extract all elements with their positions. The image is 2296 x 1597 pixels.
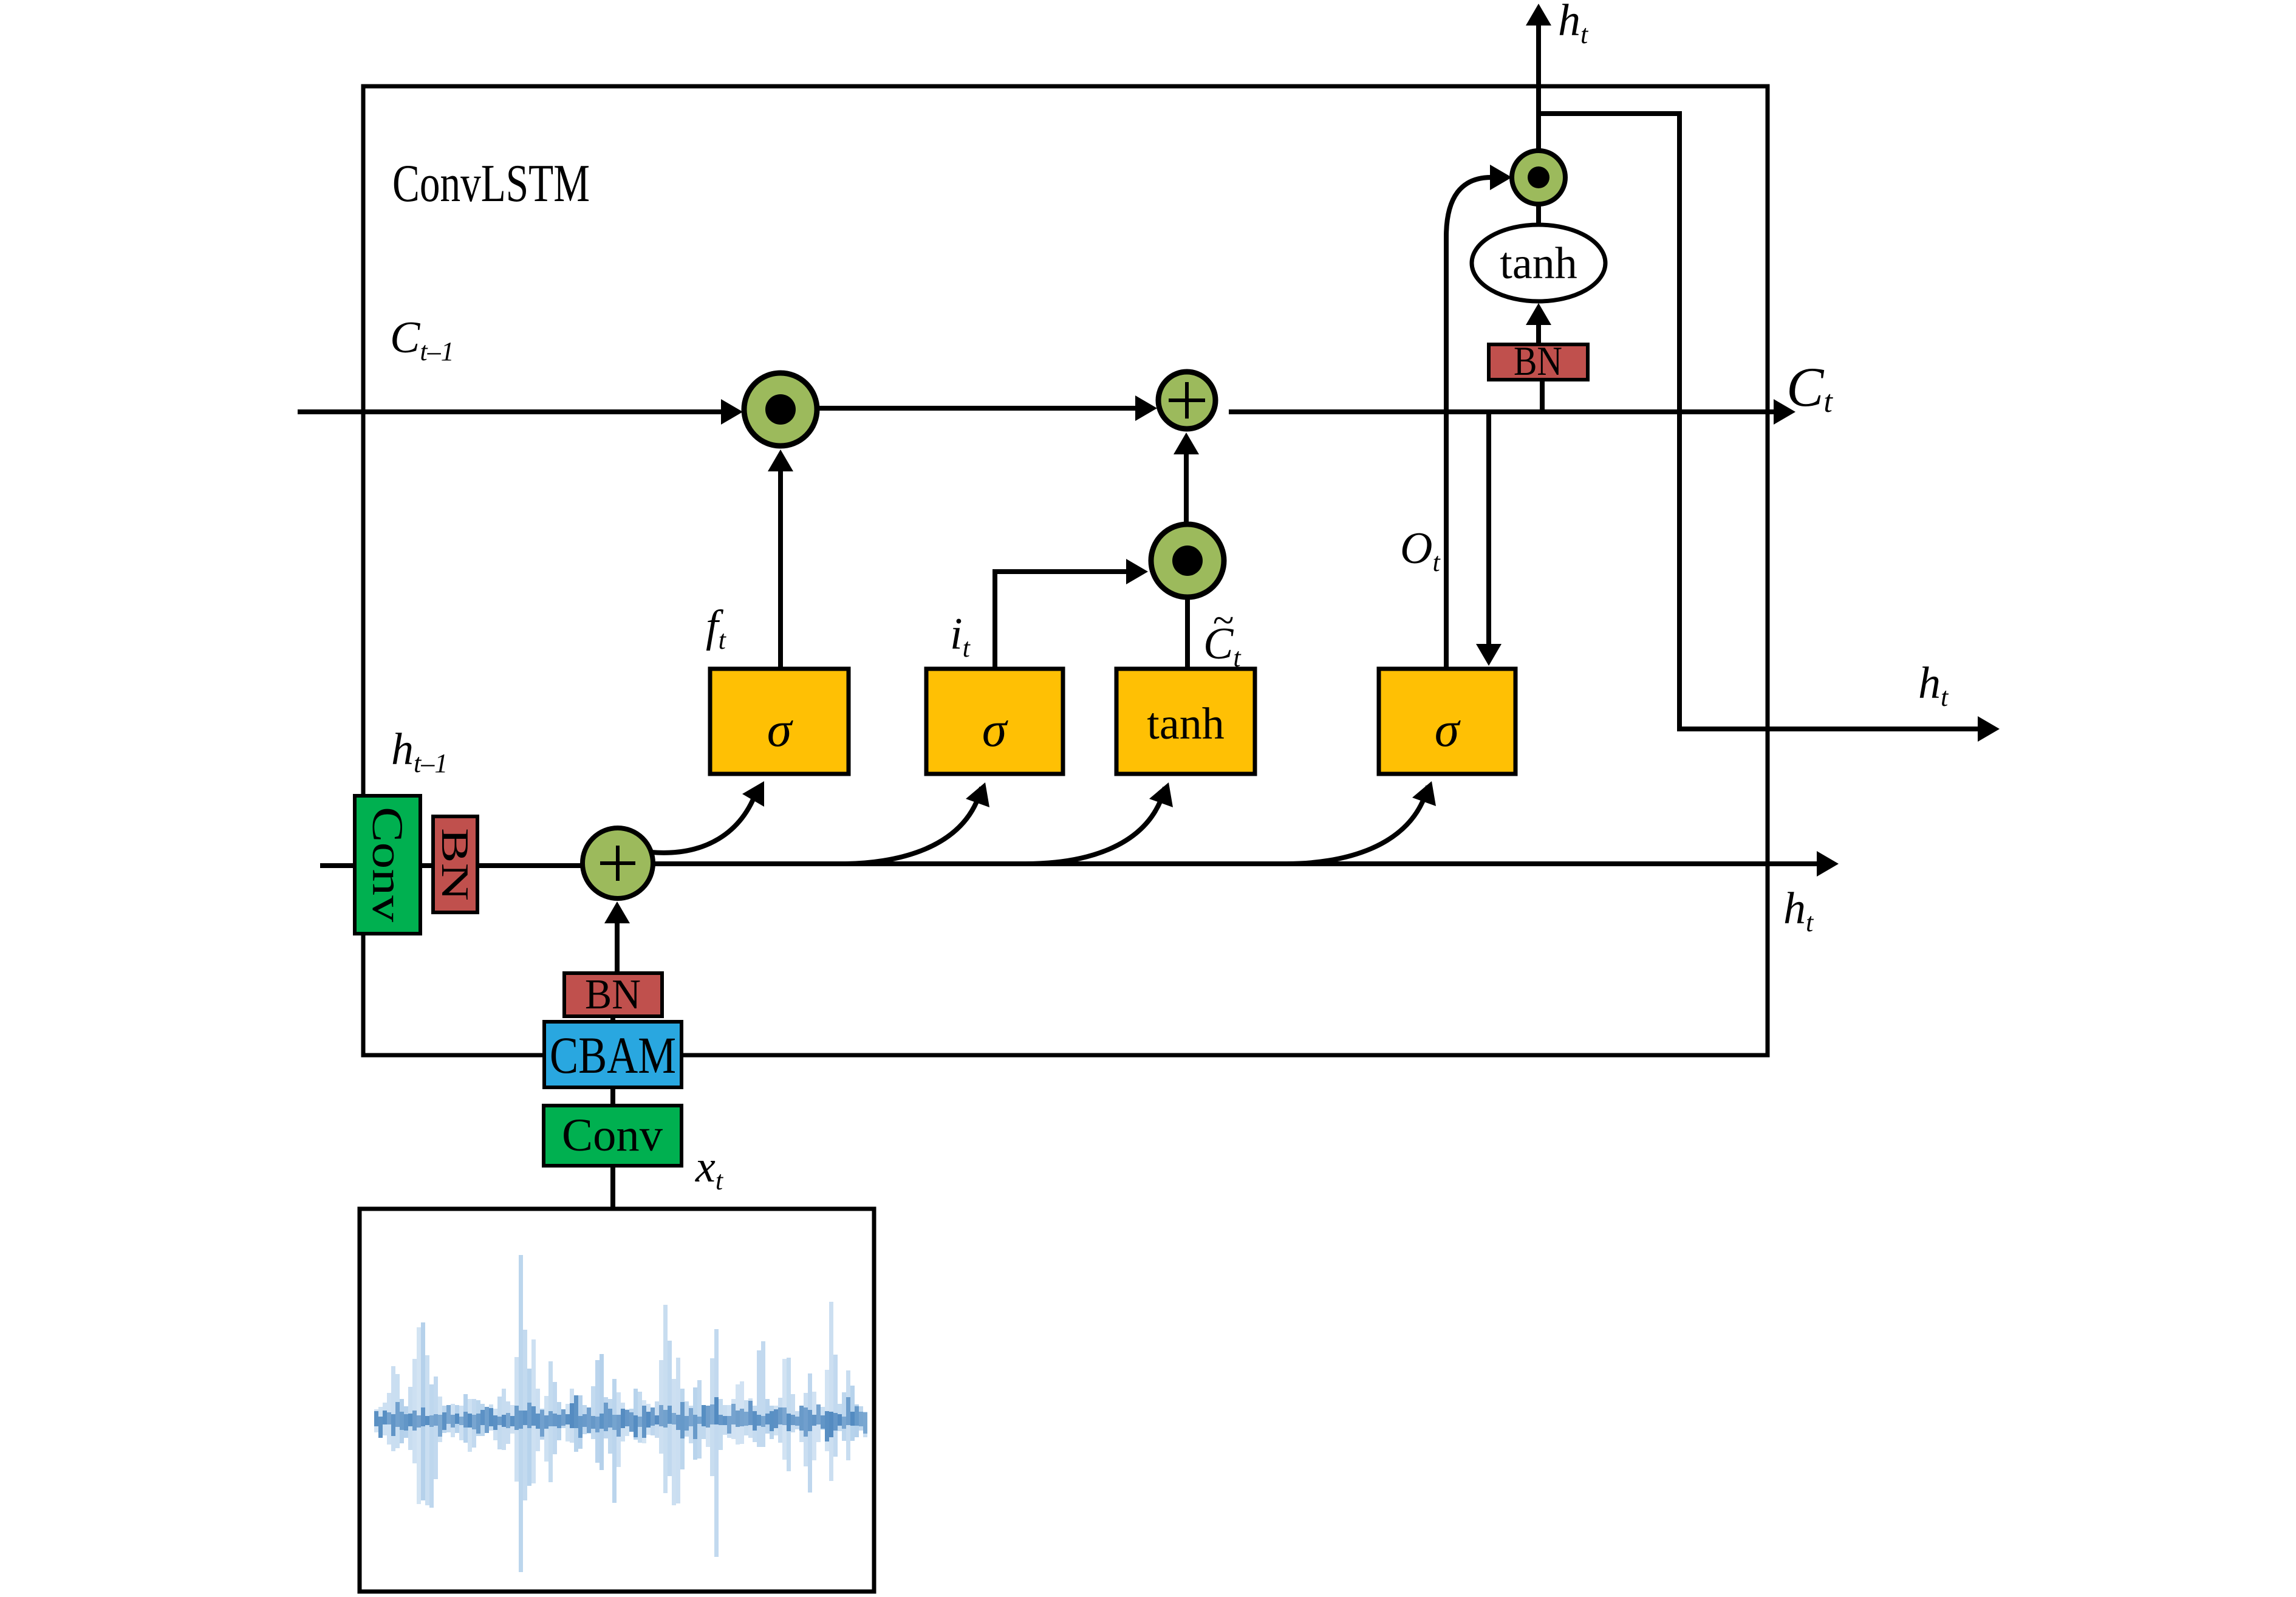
svg-text:σ: σ	[767, 702, 794, 757]
svg-text:tanh: tanh	[1147, 699, 1224, 749]
svg-text:ConvLSTM: ConvLSTM	[392, 154, 590, 213]
svg-text:tanh: tanh	[1500, 239, 1577, 289]
svg-text:BN: BN	[1514, 338, 1562, 384]
svg-text:CBAM: CBAM	[550, 1026, 676, 1084]
svg-text:BN: BN	[585, 971, 641, 1018]
svg-text:σ: σ	[1435, 702, 1461, 757]
svg-text:σ: σ	[982, 702, 1009, 757]
svg-text:~: ~	[1212, 598, 1234, 641]
svg-text:BN: BN	[434, 828, 477, 901]
svg-text:Conv: Conv	[562, 1110, 663, 1161]
svg-text:Conv: Conv	[363, 807, 412, 922]
